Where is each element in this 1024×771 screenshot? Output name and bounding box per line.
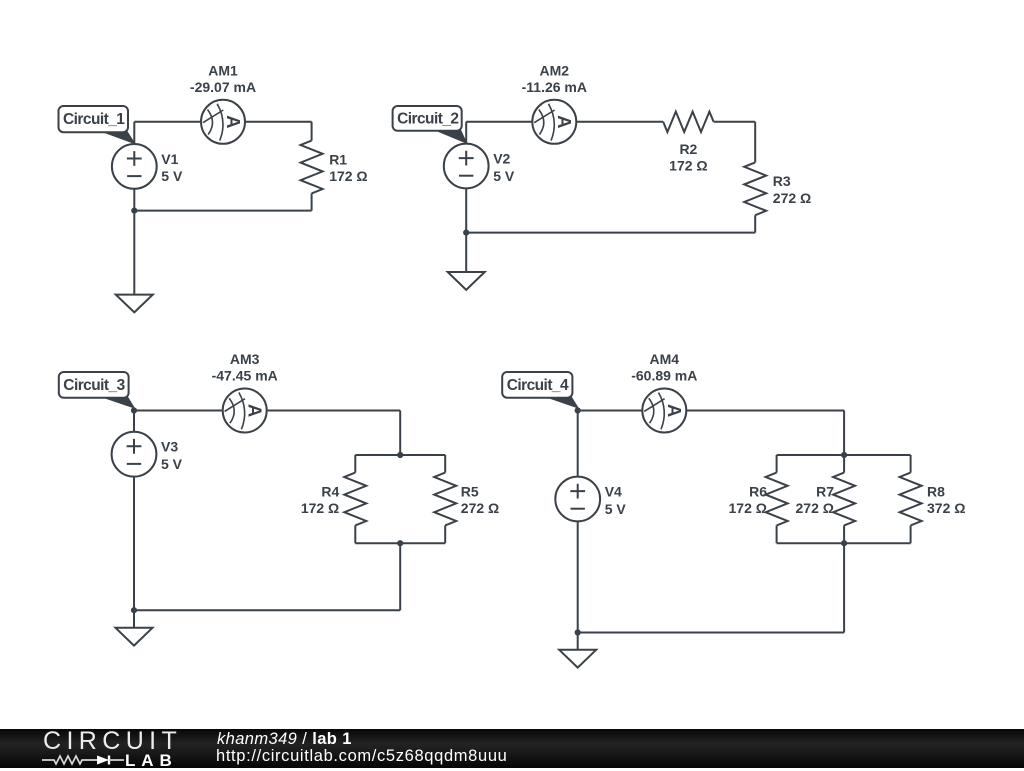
voltage source V1 bbox=[112, 144, 157, 189]
svg-text:5 V: 5 V bbox=[161, 456, 183, 472]
wire bbox=[578, 410, 643, 412]
wire bbox=[843, 411, 845, 456]
node circuit4 parallel bottom bbox=[841, 540, 847, 546]
svg-text:V1: V1 bbox=[161, 151, 178, 167]
ground bbox=[116, 295, 153, 313]
footer bar bbox=[0, 729, 1024, 768]
ground bbox=[448, 272, 485, 290]
wire circuit1 top-left vertical bbox=[133, 122, 135, 144]
wire bbox=[133, 477, 135, 628]
wire bbox=[777, 454, 911, 456]
wire bbox=[776, 525, 778, 543]
resistor R4 bbox=[344, 473, 366, 526]
net flag Circuit_1 bbox=[100, 131, 135, 144]
wire bbox=[843, 525, 845, 543]
ammeter AM2 bbox=[532, 100, 576, 144]
svg-text:R4: R4 bbox=[321, 483, 339, 499]
svg-text:Circuit_1: Circuit_1 bbox=[63, 111, 125, 128]
svg-text:R7: R7 bbox=[816, 483, 834, 499]
svg-text:AM3: AM3 bbox=[230, 351, 260, 367]
wire bbox=[355, 542, 445, 544]
svg-text:5 V: 5 V bbox=[605, 501, 627, 517]
node circuit3 top-left bbox=[131, 407, 137, 413]
wire bbox=[134, 210, 311, 212]
wire bbox=[134, 121, 201, 123]
wire bbox=[133, 189, 135, 295]
wire bbox=[910, 455, 912, 473]
svg-text:A: A bbox=[554, 115, 575, 128]
svg-text:-11.26 mA: -11.26 mA bbox=[522, 79, 587, 95]
footer url bbox=[216, 747, 507, 766]
resistor R8 bbox=[900, 473, 922, 526]
wire bbox=[843, 543, 845, 632]
wire bbox=[577, 521, 579, 649]
svg-text:R1: R1 bbox=[329, 151, 347, 167]
wire bbox=[578, 632, 844, 634]
node circuit1 bottom junction bbox=[131, 208, 137, 214]
logo CIRCUIT word bbox=[43, 727, 182, 756]
wire bbox=[133, 411, 135, 432]
svg-text:272 Ω: 272 Ω bbox=[796, 500, 834, 516]
svg-text:AM4: AM4 bbox=[650, 351, 680, 367]
wire bbox=[686, 410, 844, 412]
wire bbox=[754, 215, 756, 232]
wire bbox=[910, 525, 912, 543]
voltage source V4 bbox=[555, 477, 600, 522]
wire bbox=[714, 121, 756, 123]
resistor R1 bbox=[301, 141, 323, 194]
wire bbox=[444, 455, 446, 473]
footer username / title bbox=[217, 730, 352, 749]
ground bbox=[116, 628, 153, 646]
svg-text:272 Ω: 272 Ω bbox=[773, 190, 811, 206]
svg-text:R8: R8 bbox=[927, 483, 945, 499]
svg-text:A: A bbox=[245, 404, 266, 417]
ground bbox=[559, 650, 596, 668]
resistor R5 bbox=[434, 473, 456, 526]
svg-text:Circuit_2: Circuit_2 bbox=[397, 110, 458, 127]
svg-text:172 Ω: 172 Ω bbox=[669, 157, 707, 173]
net flag Circuit_4 bbox=[544, 396, 578, 408]
svg-text:A: A bbox=[223, 115, 244, 128]
svg-text:V2: V2 bbox=[493, 150, 510, 166]
svg-text:A: A bbox=[664, 404, 685, 417]
resistor R3 bbox=[744, 162, 766, 215]
ammeter AM4 bbox=[642, 389, 686, 433]
wire bbox=[776, 455, 778, 473]
svg-text:R2: R2 bbox=[679, 141, 697, 157]
svg-text:372 Ω: 372 Ω bbox=[927, 500, 965, 516]
node circuit3 bottom junction bbox=[131, 607, 137, 613]
svg-text:5 V: 5 V bbox=[493, 168, 515, 184]
net flag Circuit_3 bbox=[100, 396, 134, 408]
svg-text:Circuit_3: Circuit_3 bbox=[63, 377, 125, 394]
voltage source V2 bbox=[444, 144, 489, 189]
svg-text:Circuit_4: Circuit_4 bbox=[507, 377, 569, 394]
node circuit4 parallel top bbox=[841, 452, 847, 458]
svg-text:R6: R6 bbox=[749, 483, 767, 499]
wire bbox=[134, 609, 400, 611]
node circuit3 parallel bottom bbox=[397, 540, 403, 546]
svg-text:V4: V4 bbox=[605, 483, 622, 499]
svg-text:AM2: AM2 bbox=[540, 62, 570, 78]
wire bbox=[134, 410, 223, 412]
wire bbox=[444, 525, 446, 543]
wire bbox=[311, 122, 313, 141]
wire bbox=[355, 454, 445, 456]
wire bbox=[576, 121, 663, 123]
svg-text:-60.89 mA: -60.89 mA bbox=[631, 367, 697, 383]
resistor R6 bbox=[766, 473, 788, 526]
svg-text:172 Ω: 172 Ω bbox=[301, 500, 339, 516]
resistor R7 bbox=[833, 473, 855, 526]
wire bbox=[777, 542, 911, 544]
node circuit4 top-left bbox=[575, 407, 581, 413]
resistor R2 bbox=[663, 112, 713, 132]
wire bbox=[399, 411, 401, 456]
logo LAB word bbox=[125, 751, 178, 771]
wire bbox=[843, 455, 845, 473]
svg-text:-29.07 mA: -29.07 mA bbox=[190, 79, 256, 95]
svg-text:-47.45 mA: -47.45 mA bbox=[212, 367, 278, 383]
voltage source V3 bbox=[112, 432, 157, 477]
net flag Circuit_2 bbox=[433, 129, 467, 143]
wire bbox=[311, 193, 313, 210]
wire bbox=[465, 122, 467, 144]
wire bbox=[466, 121, 532, 123]
wire bbox=[754, 122, 756, 163]
wire bbox=[399, 543, 401, 610]
node circuit4 bottom junction bbox=[575, 629, 581, 635]
ammeter AM3 bbox=[223, 389, 267, 433]
wire bbox=[466, 232, 755, 234]
wire bbox=[354, 455, 356, 473]
svg-text:R5: R5 bbox=[461, 483, 479, 499]
svg-text:R3: R3 bbox=[773, 173, 791, 189]
wire bbox=[354, 525, 356, 543]
svg-text:5 V: 5 V bbox=[161, 168, 183, 184]
wire bbox=[577, 411, 579, 477]
svg-text:172 Ω: 172 Ω bbox=[329, 168, 367, 184]
logo wire-resistor-diode motif bbox=[40, 729, 170, 768]
svg-text:AM1: AM1 bbox=[208, 62, 238, 78]
wire bbox=[465, 188, 467, 272]
svg-text:V3: V3 bbox=[161, 439, 178, 455]
node circuit2 bottom junction bbox=[463, 230, 469, 236]
svg-text:172 Ω: 172 Ω bbox=[729, 500, 767, 516]
wire bbox=[245, 121, 312, 123]
ammeter AM1 bbox=[201, 100, 245, 144]
svg-text:272 Ω: 272 Ω bbox=[461, 500, 499, 516]
node circuit3 parallel top bbox=[397, 452, 403, 458]
wire bbox=[267, 410, 401, 412]
